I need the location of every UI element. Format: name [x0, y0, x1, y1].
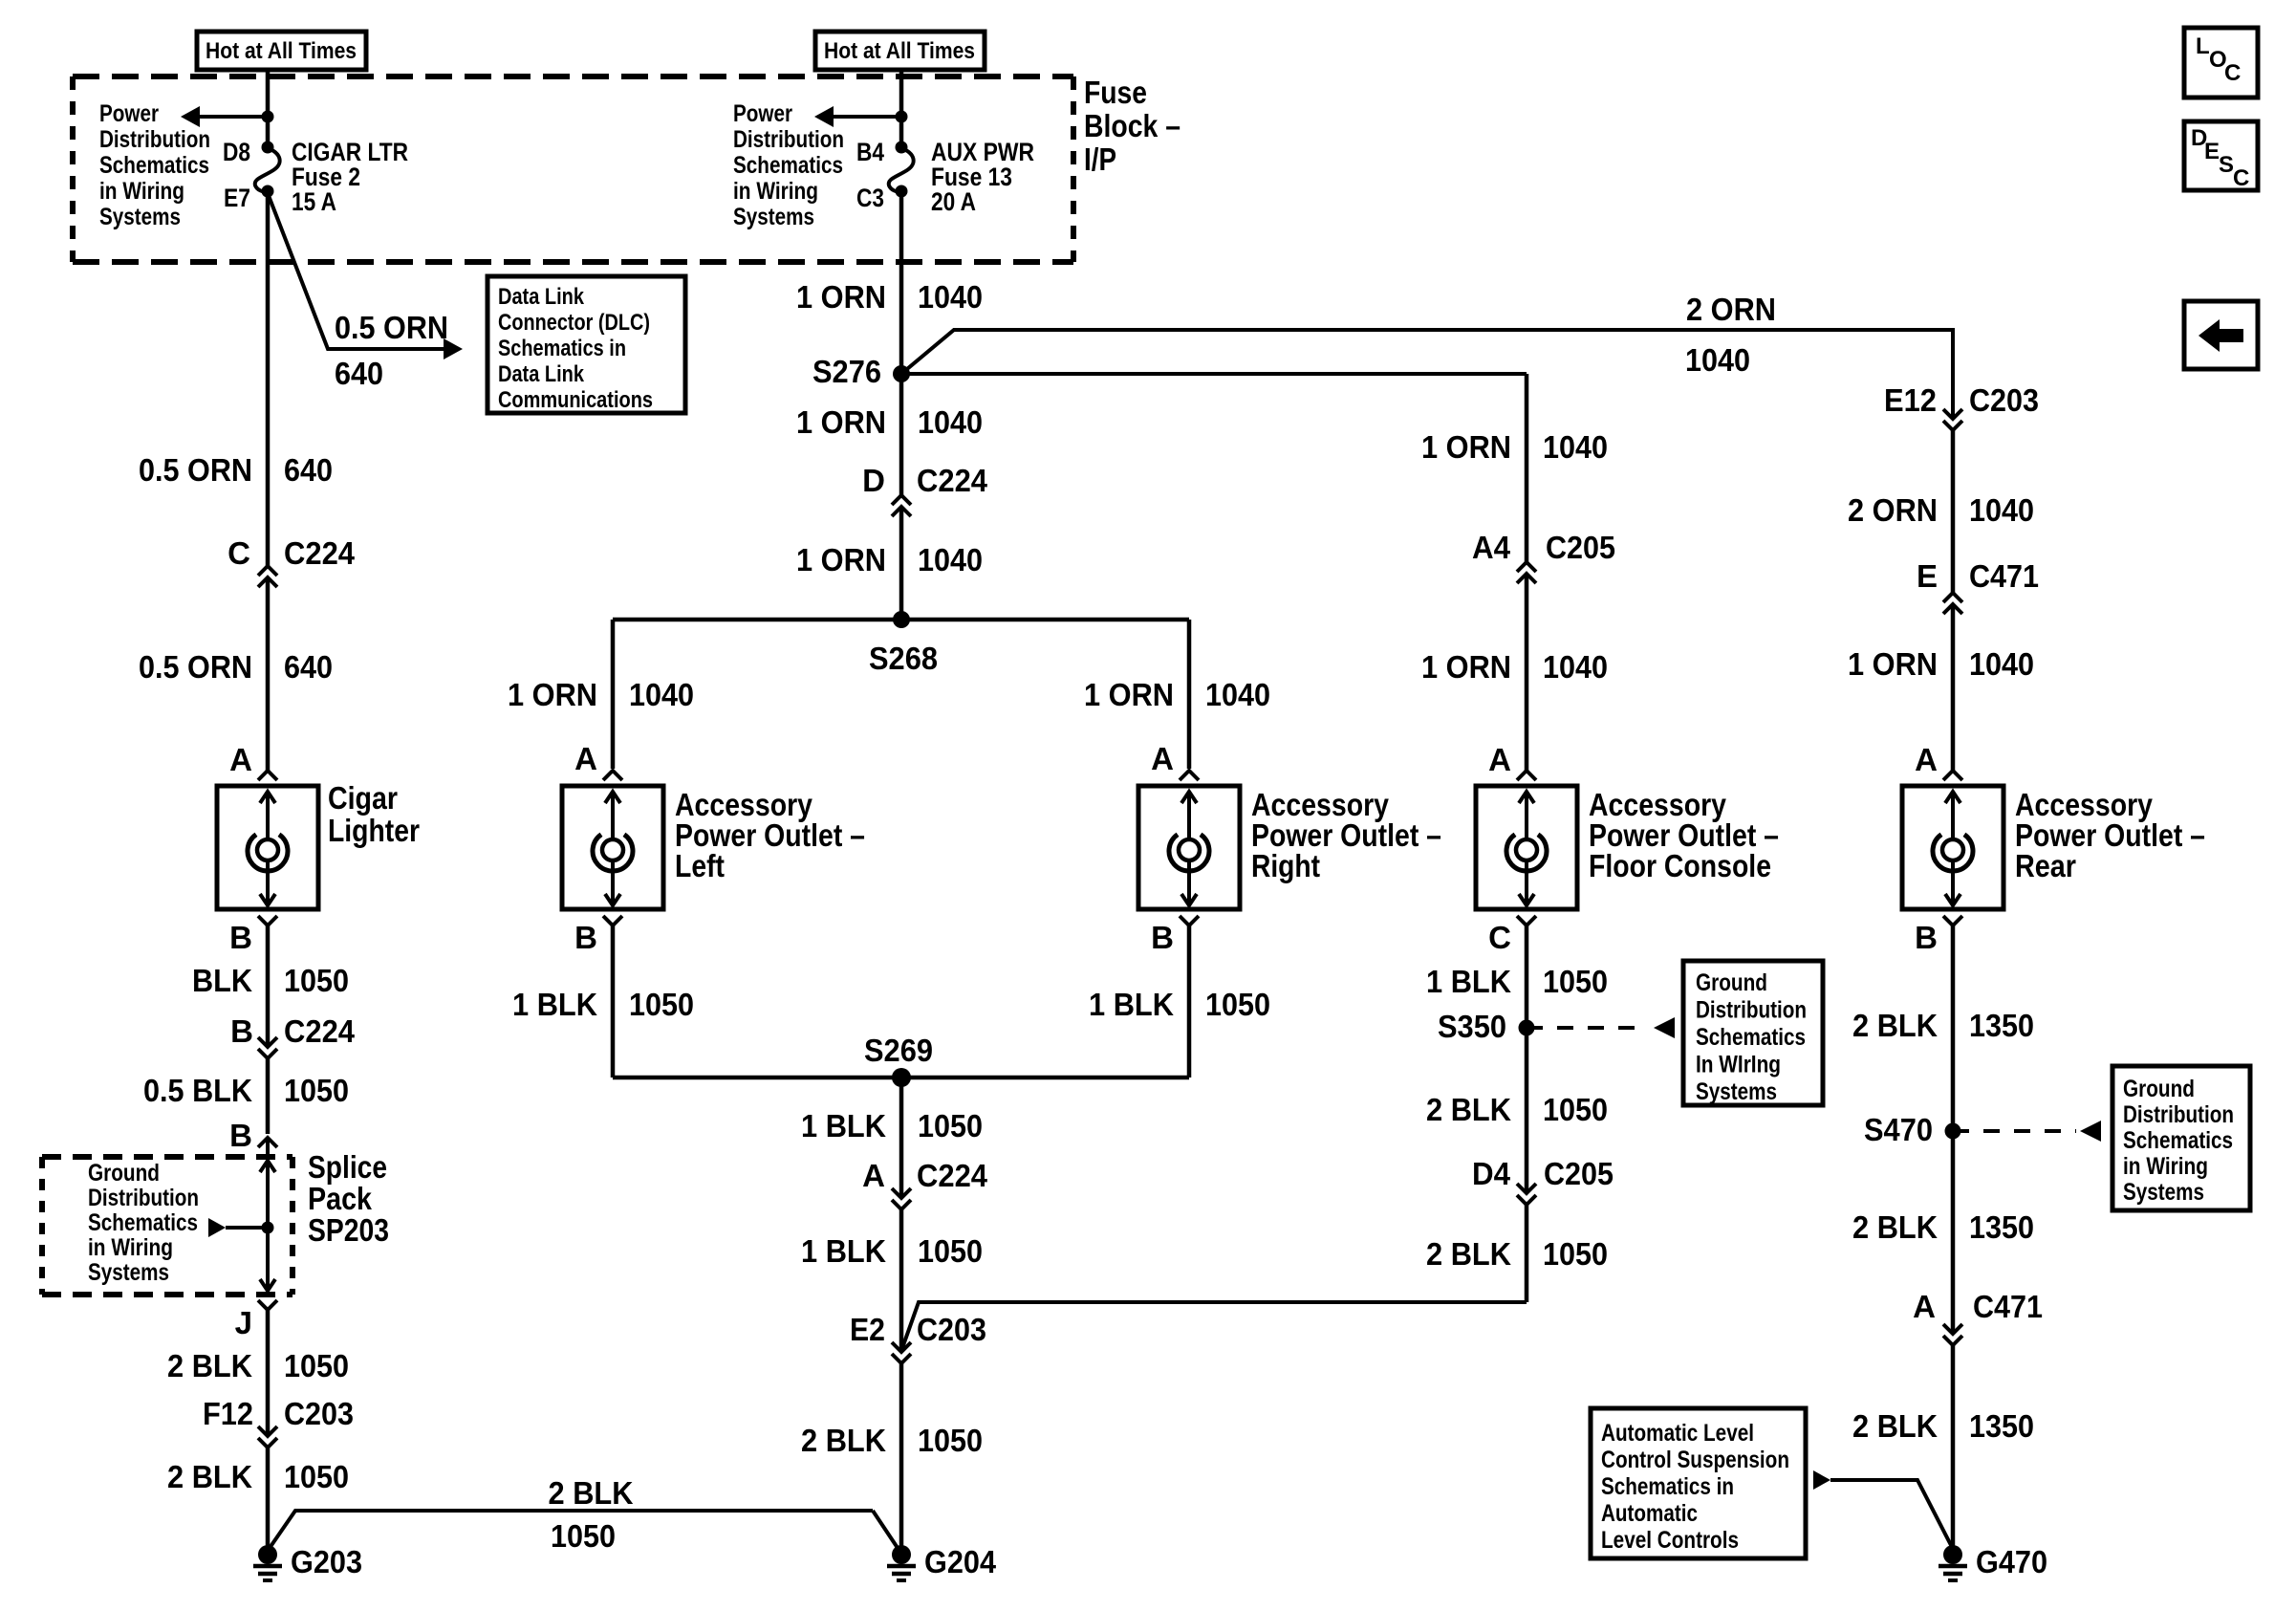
node: SP203 splice tap [262, 1222, 274, 1234]
svg-text:C203: C203 [917, 1312, 986, 1347]
fuse F1: CIGAR LTR Fuse 2 15 A [262, 142, 274, 154]
svg-text:C203: C203 [1969, 382, 2039, 418]
svg-text:1 BLK: 1 BLK [1089, 987, 1174, 1022]
node: splice S470 [1945, 1123, 1961, 1140]
svg-text:B: B [1915, 920, 1938, 955]
node: LOC legend box [2184, 28, 2258, 98]
svg-text:E: E [1917, 558, 1938, 594]
node: Ground Distribution reference box (S470) [2112, 1066, 2250, 1210]
wire: 0.5 ORN 640 cigar lighter feed lower [266, 577, 271, 771]
svg-text:2 BLK: 2 BLK [1426, 1092, 1511, 1127]
node: splice S276 [893, 365, 910, 382]
svg-text:640: 640 [284, 649, 333, 685]
svg-text:A: A [862, 1158, 885, 1193]
svg-text:1350: 1350 [1969, 1408, 2034, 1444]
svg-text:2 BLK: 2 BLK [549, 1475, 634, 1511]
svg-text:E: E [2204, 139, 2220, 164]
svg-text:C: C [1488, 920, 1511, 955]
svg-text:E12: E12 [1884, 382, 1937, 418]
svg-text:1 ORN: 1 ORN [1084, 677, 1174, 712]
svg-text:Level Controls: Level Controls [1601, 1527, 1739, 1554]
svg-text:A: A [574, 741, 597, 776]
svg-text:2 BLK: 2 BLK [167, 1348, 252, 1383]
svg-text:1 ORN: 1 ORN [1421, 649, 1511, 685]
wire: 1 ORN 1040 to rear outlet [1951, 604, 1956, 771]
svg-text:SP203: SP203 [308, 1212, 389, 1248]
svg-text:Pack: Pack [308, 1181, 373, 1216]
svg-text:1050: 1050 [284, 963, 349, 998]
svg-text:S350: S350 [1438, 1009, 1506, 1044]
wire: left feed from Hot at All Times into fuse D8 [266, 70, 271, 143]
svg-text:C224: C224 [917, 1158, 988, 1193]
svg-text:640: 640 [335, 356, 383, 391]
node: power distribution tap (middle) [896, 111, 908, 123]
svg-text:D: D [862, 463, 885, 498]
svg-text:1050: 1050 [284, 1459, 349, 1494]
svg-text:15 A: 15 A [292, 187, 336, 216]
svg-text:Schematics: Schematics [2123, 1127, 2233, 1154]
pin B of rear outlet [1943, 916, 1962, 925]
svg-text:640: 640 [284, 452, 333, 488]
svg-text:1 BLK: 1 BLK [1426, 964, 1511, 999]
svg-text:2 ORN: 2 ORN [1686, 292, 1776, 327]
svg-text:1050: 1050 [1205, 987, 1270, 1022]
splice pack SP203 dashed enclosure [42, 1154, 292, 1160]
svg-text:Cigar: Cigar [328, 780, 398, 816]
svg-text:1050: 1050 [918, 1233, 983, 1269]
svg-text:Block –: Block – [1084, 108, 1180, 143]
wire: 2 BLK 1050 C205 to junction [1525, 1205, 1529, 1302]
svg-text:1040: 1040 [1543, 429, 1608, 465]
svg-text:2 BLK: 2 BLK [1852, 1408, 1938, 1444]
svg-text:Systems: Systems [99, 204, 181, 230]
node: Hot at All Times label (left) [197, 32, 366, 70]
svg-text:Left: Left [675, 848, 725, 883]
svg-text:Ground: Ground [88, 1160, 160, 1186]
svg-text:1040: 1040 [1205, 677, 1270, 712]
svg-text:Hot at All Times: Hot at All Times [824, 38, 975, 64]
svg-text:0.5 ORN: 0.5 ORN [139, 649, 252, 685]
wire: 2 BLK 1050 from floor console joining E2 [902, 1302, 1527, 1348]
svg-text:1 ORN: 1 ORN [1848, 646, 1938, 682]
svg-text:G203: G203 [291, 1544, 362, 1579]
svg-text:Distribution: Distribution [733, 126, 844, 153]
svg-text:Ground: Ground [2123, 1076, 2195, 1102]
svg-text:1050: 1050 [1543, 1236, 1608, 1272]
svg-text:C205: C205 [1546, 530, 1615, 565]
node: DESC legend box [2184, 121, 2258, 190]
wire: 1 ORN 1040 to right outlet [1187, 620, 1192, 769]
svg-text:B: B [229, 1118, 252, 1153]
svg-text:In WIrIng: In WIrIng [1696, 1052, 1781, 1078]
svg-text:2 ORN: 2 ORN [1848, 492, 1938, 528]
svg-text:2 BLK: 2 BLK [167, 1459, 252, 1494]
wire: 0.5 ORN 640 cigar lighter feed upper [266, 193, 271, 566]
svg-text:Distribution: Distribution [1696, 997, 1807, 1024]
svg-text:Automatic Level: Automatic Level [1601, 1420, 1754, 1447]
svg-text:Splice: Splice [308, 1149, 387, 1185]
svg-text:1350: 1350 [1969, 1008, 2034, 1043]
ground G203 [258, 1545, 277, 1564]
svg-text:Control Suspension: Control Suspension [1601, 1447, 1789, 1473]
svg-text:1050: 1050 [918, 1108, 983, 1143]
node: Automatic Level Control reference box [1591, 1408, 1806, 1558]
component: Accessory Power Outlet - Left [562, 786, 663, 909]
svg-text:1050: 1050 [551, 1518, 616, 1554]
svg-text:1 ORN: 1 ORN [796, 404, 886, 440]
svg-text:Ground: Ground [1696, 969, 1767, 996]
svg-text:C471: C471 [1973, 1289, 2043, 1324]
svg-text:1040: 1040 [1543, 649, 1608, 685]
svg-text:Automatic: Automatic [1601, 1500, 1698, 1527]
svg-text:C205: C205 [1544, 1156, 1614, 1191]
svg-text:C224: C224 [284, 535, 356, 571]
svg-text:Distribution: Distribution [99, 126, 210, 153]
svg-text:Hot at All Times: Hot at All Times [206, 38, 357, 64]
wire: 1 ORN 1040 C224 to S268 [899, 507, 904, 620]
ground G470 [1943, 1545, 1962, 1564]
svg-text:1040: 1040 [1969, 646, 2034, 682]
svg-text:E2: E2 [850, 1312, 885, 1347]
wire: 1 BLK 1050 S269 to C224 [899, 1078, 904, 1197]
svg-text:in Wiring: in Wiring [99, 178, 184, 205]
svg-text:C224: C224 [917, 463, 988, 498]
svg-text:D4: D4 [1472, 1156, 1511, 1191]
svg-text:B: B [230, 1013, 253, 1049]
svg-text:B: B [1151, 920, 1174, 955]
svg-text:C224: C224 [284, 1013, 356, 1049]
svg-text:1050: 1050 [1543, 964, 1608, 999]
component: Accessory Power Outlet - Floor Console [1476, 786, 1577, 909]
svg-text:1040: 1040 [1685, 342, 1750, 378]
svg-text:1 ORN: 1 ORN [1421, 429, 1511, 465]
pin B of cigar lighter [258, 916, 277, 925]
svg-text:Schematics: Schematics [733, 152, 843, 179]
svg-text:1040: 1040 [918, 404, 983, 440]
node: Data Link Connector reference box [487, 276, 685, 413]
svg-text:BLK: BLK [192, 963, 252, 998]
node: splice S268 [893, 611, 910, 628]
svg-text:B: B [229, 920, 252, 955]
svg-text:Systems: Systems [88, 1259, 169, 1286]
svg-text:C: C [2233, 165, 2249, 191]
wire: 1 ORN 1040 floor console lower [1525, 574, 1529, 771]
pin C of floor console outlet [1517, 916, 1536, 925]
svg-text:Data Link: Data Link [498, 284, 585, 310]
wire: middle feed from Hot at All Times into fuse B4 [899, 70, 904, 143]
svg-text:0.5 ORN: 0.5 ORN [335, 310, 448, 345]
wire through splice pack SP203 [266, 1138, 270, 1293]
svg-text:A: A [1915, 742, 1938, 777]
svg-text:Distribution: Distribution [2123, 1101, 2234, 1128]
svg-text:1040: 1040 [918, 279, 983, 315]
svg-text:in Wiring: in Wiring [88, 1234, 173, 1261]
svg-text:C: C [227, 535, 250, 571]
wire: 2 BLK 1350 S470 to C471 [1951, 1131, 1956, 1334]
svg-text:1350: 1350 [1969, 1209, 2034, 1245]
svg-text:Schematics in: Schematics in [1601, 1473, 1734, 1500]
svg-text:1 ORN: 1 ORN [508, 677, 597, 712]
svg-text:L: L [2196, 33, 2210, 59]
svg-text:E7: E7 [224, 184, 250, 212]
svg-text:in Wiring: in Wiring [733, 178, 818, 205]
svg-text:A: A [229, 742, 252, 777]
svg-text:Systems: Systems [733, 204, 814, 230]
svg-text:Schematics in: Schematics in [498, 336, 626, 361]
svg-text:C203: C203 [284, 1396, 354, 1431]
node: splice S350 [1519, 1020, 1535, 1036]
svg-text:Schematics: Schematics [88, 1209, 198, 1236]
svg-text:1 BLK: 1 BLK [512, 987, 597, 1022]
wire: 1 BLK 1050 C224 to C203 [899, 1209, 904, 1352]
svg-text:Right: Right [1251, 848, 1320, 883]
svg-text:C471: C471 [1969, 558, 2039, 594]
svg-text:A: A [1913, 1289, 1936, 1324]
svg-text:S: S [2219, 152, 2234, 178]
svg-text:1040: 1040 [1969, 492, 2034, 528]
svg-text:D8: D8 [223, 138, 250, 166]
svg-text:1050: 1050 [1543, 1092, 1608, 1127]
ground G204 [892, 1545, 911, 1564]
svg-text:20 A: 20 A [931, 187, 976, 216]
svg-text:1050: 1050 [284, 1348, 349, 1383]
pin B of left outlet [603, 916, 622, 925]
svg-text:0.5 BLK: 0.5 BLK [143, 1073, 252, 1108]
svg-text:2 BLK: 2 BLK [1426, 1236, 1511, 1272]
node: splice S269 [613, 1076, 1189, 1080]
wire: 1 BLK 1050 below floor console outlet [1525, 925, 1529, 1028]
svg-text:C3: C3 [856, 184, 884, 212]
fuse F2: AUX PWR Fuse 13 20 A [896, 142, 908, 154]
node: back-arrow legend box [2184, 301, 2258, 369]
wire: 0.5 ORN 640 branch to DLC [268, 193, 456, 349]
wire: 2 BLK 1350 below rear outlet [1951, 925, 1956, 1131]
svg-text:A: A [1488, 742, 1511, 777]
svg-text:G470: G470 [1976, 1544, 2047, 1579]
wire: 2 BLK 1050 to ground G203 [266, 1448, 271, 1549]
fuse block I/P dashed enclosure [73, 74, 1073, 79]
svg-text:Distribution: Distribution [88, 1185, 199, 1211]
svg-text:Power: Power [733, 100, 792, 127]
pin J below splice pack [258, 1300, 277, 1310]
wire: 1 ORN 1040 fuse 13 output [899, 191, 904, 374]
svg-text:0.5 ORN: 0.5 ORN [139, 452, 252, 488]
pin B of right outlet [1180, 916, 1199, 925]
svg-text:I/P: I/P [1084, 142, 1116, 177]
svg-text:J: J [235, 1305, 252, 1340]
wire: 1 ORN 1040 S276 to C224 [899, 374, 904, 495]
svg-text:Floor Console: Floor Console [1589, 848, 1771, 883]
svg-text:1050: 1050 [629, 987, 694, 1022]
svg-text:Fuse: Fuse [1084, 75, 1147, 110]
wire: 1 ORN 1040 to left outlet [611, 620, 616, 769]
wire: reference pointer to G470 wire [1813, 1470, 1830, 1490]
svg-text:Systems: Systems [1696, 1078, 1777, 1105]
svg-text:2 BLK: 2 BLK [801, 1423, 886, 1458]
svg-text:Power: Power [99, 100, 159, 127]
node: Hot at All Times label (middle) [815, 32, 985, 70]
wire: 1 ORN 1040 branch to floor console [901, 372, 1527, 376]
svg-text:in Wiring: in Wiring [2123, 1153, 2208, 1180]
component: Accessory Power Outlet - Rear [1902, 786, 2004, 909]
svg-text:G204: G204 [924, 1544, 997, 1579]
svg-text:1 BLK: 1 BLK [801, 1108, 886, 1143]
node: power distribution tap (left) [262, 111, 274, 123]
svg-text:1 BLK: 1 BLK [801, 1233, 886, 1269]
svg-text:1 ORN: 1 ORN [796, 279, 886, 315]
svg-text:A: A [1151, 741, 1174, 776]
svg-text:Lighter: Lighter [328, 813, 420, 848]
svg-text:1 ORN: 1 ORN [796, 542, 886, 577]
svg-text:F12: F12 [203, 1396, 253, 1431]
wire: 2 ORN 1040 rear feed [1951, 430, 1956, 593]
wire: BLK 1050 below cigar lighter [266, 925, 271, 1047]
wire: 1 BLK 1050 below right outlet [1187, 925, 1192, 1078]
svg-text:S268: S268 [869, 641, 938, 676]
svg-text:2 BLK: 2 BLK [1852, 1008, 1938, 1043]
svg-text:2 BLK: 2 BLK [1852, 1209, 1938, 1245]
component: Cigar Lighter [217, 786, 318, 909]
svg-text:B: B [574, 920, 597, 955]
svg-text:Systems: Systems [2123, 1179, 2204, 1206]
svg-text:Rear: Rear [2015, 848, 2076, 883]
wire: 2 BLK 1050 below splice pack [266, 1310, 271, 1436]
svg-text:Data Link: Data Link [498, 361, 585, 387]
wire: 2 BLK 1050 to ground G204 [899, 1363, 904, 1549]
wire: 2 BLK 1350 to ground G470 [1951, 1345, 1956, 1549]
svg-text:B4: B4 [856, 138, 884, 166]
svg-text:Schematics: Schematics [99, 152, 209, 179]
svg-text:S276: S276 [812, 354, 881, 389]
svg-text:Schematics: Schematics [1696, 1024, 1806, 1051]
svg-text:Connector (DLC): Connector (DLC) [498, 310, 650, 336]
wire: 1 BLK 1050 below left outlet [611, 925, 616, 1078]
svg-text:S470: S470 [1864, 1112, 1933, 1147]
svg-text:1050: 1050 [918, 1423, 983, 1458]
node: Ground Distribution reference box (S350) [1683, 961, 1823, 1105]
svg-text:1040: 1040 [629, 677, 694, 712]
svg-text:1050: 1050 [284, 1073, 349, 1108]
svg-text:A4: A4 [1472, 530, 1511, 565]
wire: 2 ORN 1040 branch to rear outlet [901, 330, 1953, 419]
svg-text:C: C [2224, 60, 2241, 86]
wire: 2 BLK 1050 S350 to C205 [1525, 1028, 1529, 1193]
svg-text:Communications: Communications [498, 387, 653, 413]
svg-text:1040: 1040 [918, 542, 983, 577]
svg-text:S269: S269 [864, 1033, 933, 1068]
component: Accessory Power Outlet - Right [1138, 786, 1240, 909]
wire: 0.5 BLK 1050 to splice pack [266, 1058, 271, 1134]
wire: 2 BLK 1050 cross-link between G203 and G204 [268, 1511, 873, 1551]
